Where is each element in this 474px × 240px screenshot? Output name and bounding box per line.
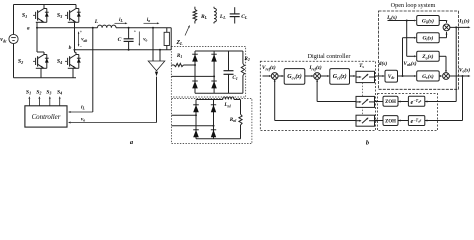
svg-text:ZOH: ZOH	[385, 100, 396, 105]
svg-text:LL: LL	[219, 14, 226, 20]
svg-text:S1: S1	[22, 13, 27, 19]
svg-text:S3: S3	[57, 13, 62, 19]
svg-text:Open loop system: Open loop system	[391, 2, 436, 9]
svg-text:Digital controller: Digital controller	[308, 53, 351, 60]
svg-text:d(s): d(s)	[379, 60, 388, 67]
svg-text:CL: CL	[241, 14, 248, 20]
svg-text:Gii(s): Gii(s)	[422, 17, 434, 24]
svg-text:Vo(s): Vo(s)	[459, 66, 470, 73]
svg-text:b: b	[69, 45, 72, 51]
svg-text:IL(s): IL(s)	[458, 18, 469, 25]
svg-text:ZOH: ZOH	[385, 119, 396, 124]
svg-text:Gci(z): Gci(z)	[333, 73, 347, 80]
svg-text:Controller: Controller	[32, 114, 61, 121]
svg-text:Gv(s): Gv(s)	[422, 73, 434, 80]
svg-text:Vab(s): Vab(s)	[403, 60, 416, 67]
svg-text:S2: S2	[36, 89, 41, 95]
svg-text:Gcv(z): Gcv(z)	[287, 73, 302, 80]
svg-text:vdc: vdc	[0, 37, 7, 43]
svg-text:Zo(s): Zo(s)	[421, 53, 433, 60]
svg-text:Iref(z): Iref(z)	[308, 64, 322, 71]
svg-text:S1: S1	[26, 89, 31, 95]
svg-text:Gi(s): Gi(s)	[422, 35, 433, 42]
svg-text:ZL: ZL	[175, 40, 183, 46]
svg-text:Io(s): Io(s)	[386, 14, 397, 21]
svg-text:L: L	[94, 19, 99, 25]
svg-text:C: C	[118, 37, 122, 43]
svg-text:S4: S4	[57, 59, 62, 65]
svg-text:b: b	[366, 140, 369, 147]
svg-text:a: a	[27, 26, 30, 32]
svg-text:S3: S3	[46, 89, 51, 95]
svg-text:S4: S4	[57, 89, 62, 95]
svg-text:RL: RL	[200, 14, 208, 20]
svg-text:S2: S2	[18, 59, 23, 65]
